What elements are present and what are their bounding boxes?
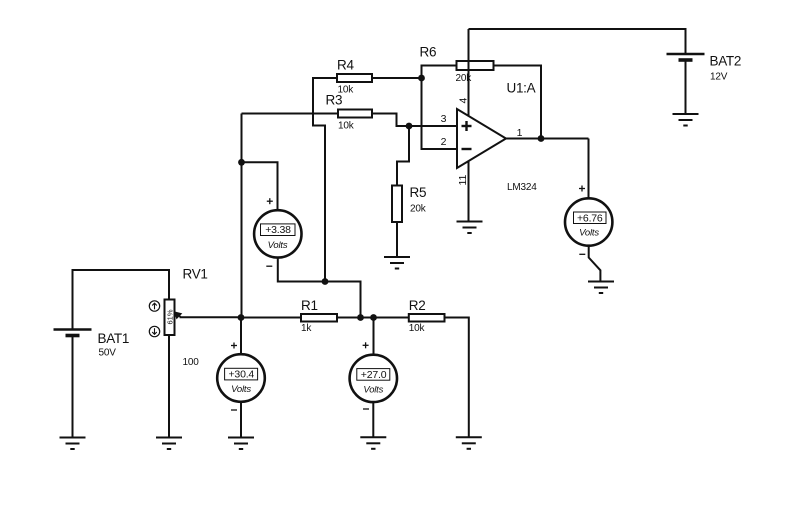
ground R5 (384, 257, 410, 269)
svg-text:1k: 1k (301, 323, 312, 334)
minus mark of voltmeter 3.38 (266, 265, 272, 267)
resistor R5 (392, 186, 402, 223)
svg-text:4: 4 (458, 98, 470, 104)
wire R3 left lead (242, 113, 339, 115)
pot decrease button (149, 326, 159, 336)
svg-text:R6: R6 (420, 45, 437, 60)
svg-text:+27.0: +27.0 (361, 369, 387, 381)
wire BAT2 to ground (685, 60, 687, 114)
svg-text:10k: 10k (338, 121, 355, 132)
node B junction (370, 314, 377, 321)
node wiper junction (238, 314, 245, 321)
voltmeter 27.0 (350, 355, 397, 402)
svg-text:RV1: RV1 (183, 267, 208, 282)
minus mark of output voltmeter (579, 253, 585, 255)
wire op-amp output (506, 138, 589, 140)
svg-text:20k: 20k (410, 204, 427, 215)
wire output node to voltmeter (588, 139, 590, 199)
wire voltmeter 3.38 to R1 node (278, 258, 361, 318)
svg-text:20k: 20k (456, 73, 473, 84)
wire R1 right lead (337, 317, 361, 319)
battery BAT1 (54, 330, 92, 336)
svg-text:3: 3 (441, 113, 447, 125)
node output junction (538, 135, 545, 142)
voltmeter output 6.76 (565, 198, 612, 245)
svg-text:Volts: Volts (579, 228, 599, 239)
wire voltmeter 30.4 to ground (240, 402, 242, 438)
svg-text:61%: 61% (166, 309, 175, 324)
wire R5 to ground (396, 222, 398, 257)
wire wiper node to R1 (241, 317, 301, 319)
ground voltmeter 27.0 (360, 437, 386, 449)
plus mark of voltmeter 30.4 (231, 343, 237, 349)
wire divider main vertical (241, 114, 243, 318)
svg-text:R5: R5 (410, 185, 427, 200)
node A junction (357, 314, 364, 321)
node R4 feed junction (322, 278, 329, 285)
potentiometer RV1 (165, 300, 175, 336)
wire pin3 node down to R5 (397, 126, 409, 186)
svg-text:50V: 50V (99, 348, 117, 359)
svg-text:12V: 12V (710, 72, 728, 83)
svg-text:R2: R2 (409, 298, 426, 313)
svg-text:U1:A: U1:A (507, 81, 536, 96)
wire tap to voltmeter 3.38 (242, 162, 278, 210)
svg-text:+3.38: +3.38 (265, 224, 291, 236)
ground BAT1 (60, 438, 86, 450)
wire output voltmeter to ground (589, 246, 601, 282)
svg-text:R4: R4 (337, 58, 354, 73)
svg-text:100: 100 (183, 357, 200, 368)
wiper arrow (174, 311, 241, 319)
ground BAT2 (673, 114, 699, 126)
ground RV1 (156, 438, 182, 450)
wire R3 right lead to op-amp pin 3 (372, 114, 457, 127)
display +27.0 (357, 369, 390, 381)
display +6.76 (574, 212, 607, 224)
wire wiper node to voltmeter 30.4 (240, 318, 242, 355)
resistor R3 (338, 110, 372, 118)
wire R6 left lead and node to pin 2 (422, 66, 458, 150)
resistor R1 (301, 314, 337, 322)
wire node B to R2 (374, 317, 409, 319)
op-amp U1:A (457, 109, 506, 168)
wire op-amp pin11 to ground (468, 158, 470, 222)
resistor R6 (457, 61, 494, 70)
wire BAT1 to RV1 (73, 270, 170, 330)
pot increase button (149, 301, 159, 311)
ground voltmeter 30.4 (228, 438, 254, 450)
resistor R2 (409, 314, 445, 322)
wire R4 right lead (372, 77, 422, 79)
svg-text:BAT2: BAT2 (710, 54, 742, 69)
minus mark of voltmeter 27.0 (363, 408, 369, 410)
wire R6 right lead to output node (494, 66, 542, 139)
svg-text:R3: R3 (326, 93, 343, 108)
minus mark of voltmeter 30.4 (231, 409, 237, 411)
svg-text:Volts: Volts (363, 385, 383, 396)
svg-text:+6.76: +6.76 (577, 212, 603, 224)
svg-text:2: 2 (441, 136, 447, 148)
svg-text:BAT1: BAT1 (98, 331, 130, 346)
svg-text:11: 11 (457, 174, 469, 185)
wire node A to node B (361, 317, 374, 319)
voltmeter 3.38 (254, 210, 301, 257)
ground op-amp pin 11 (457, 222, 483, 234)
svg-text:Volts: Volts (231, 384, 251, 395)
battery BAT2 (667, 54, 705, 60)
svg-text:LM324: LM324 (507, 182, 537, 193)
wire R4 left lead jog down to lower node (313, 78, 337, 282)
plus mark of voltmeter 3.38 (267, 198, 273, 204)
plus mark of voltmeter 27.0 (363, 342, 369, 348)
display +30.4 (225, 368, 258, 380)
wire op-amp pin4 to V+ rail (468, 29, 470, 119)
svg-text:10k: 10k (409, 323, 426, 334)
wire voltmeter 27.0 to ground (372, 402, 374, 437)
wire pot to ground (168, 335, 170, 438)
resistor R4 (337, 74, 372, 82)
wire V+ rail to BAT2 (469, 29, 686, 54)
ground output voltmeter (588, 282, 614, 294)
svg-text:Volts: Volts (268, 240, 288, 251)
svg-text:R1: R1 (301, 298, 318, 313)
ground R2 (456, 437, 482, 449)
node pin3/R5 junction (406, 123, 413, 130)
wire BAT1 to ground (72, 336, 74, 438)
node R4/R6 junction (418, 75, 425, 82)
plus mark of output voltmeter (579, 186, 585, 192)
svg-text:1: 1 (517, 127, 523, 139)
wire node B to voltmeter 27.0 (373, 318, 375, 355)
display +3.38 (261, 224, 296, 236)
svg-text:+30.4: +30.4 (229, 369, 255, 381)
node meter tap junction (238, 159, 245, 166)
voltmeter 30.4 (217, 354, 265, 402)
wire R2 right lead to ground (445, 318, 469, 438)
